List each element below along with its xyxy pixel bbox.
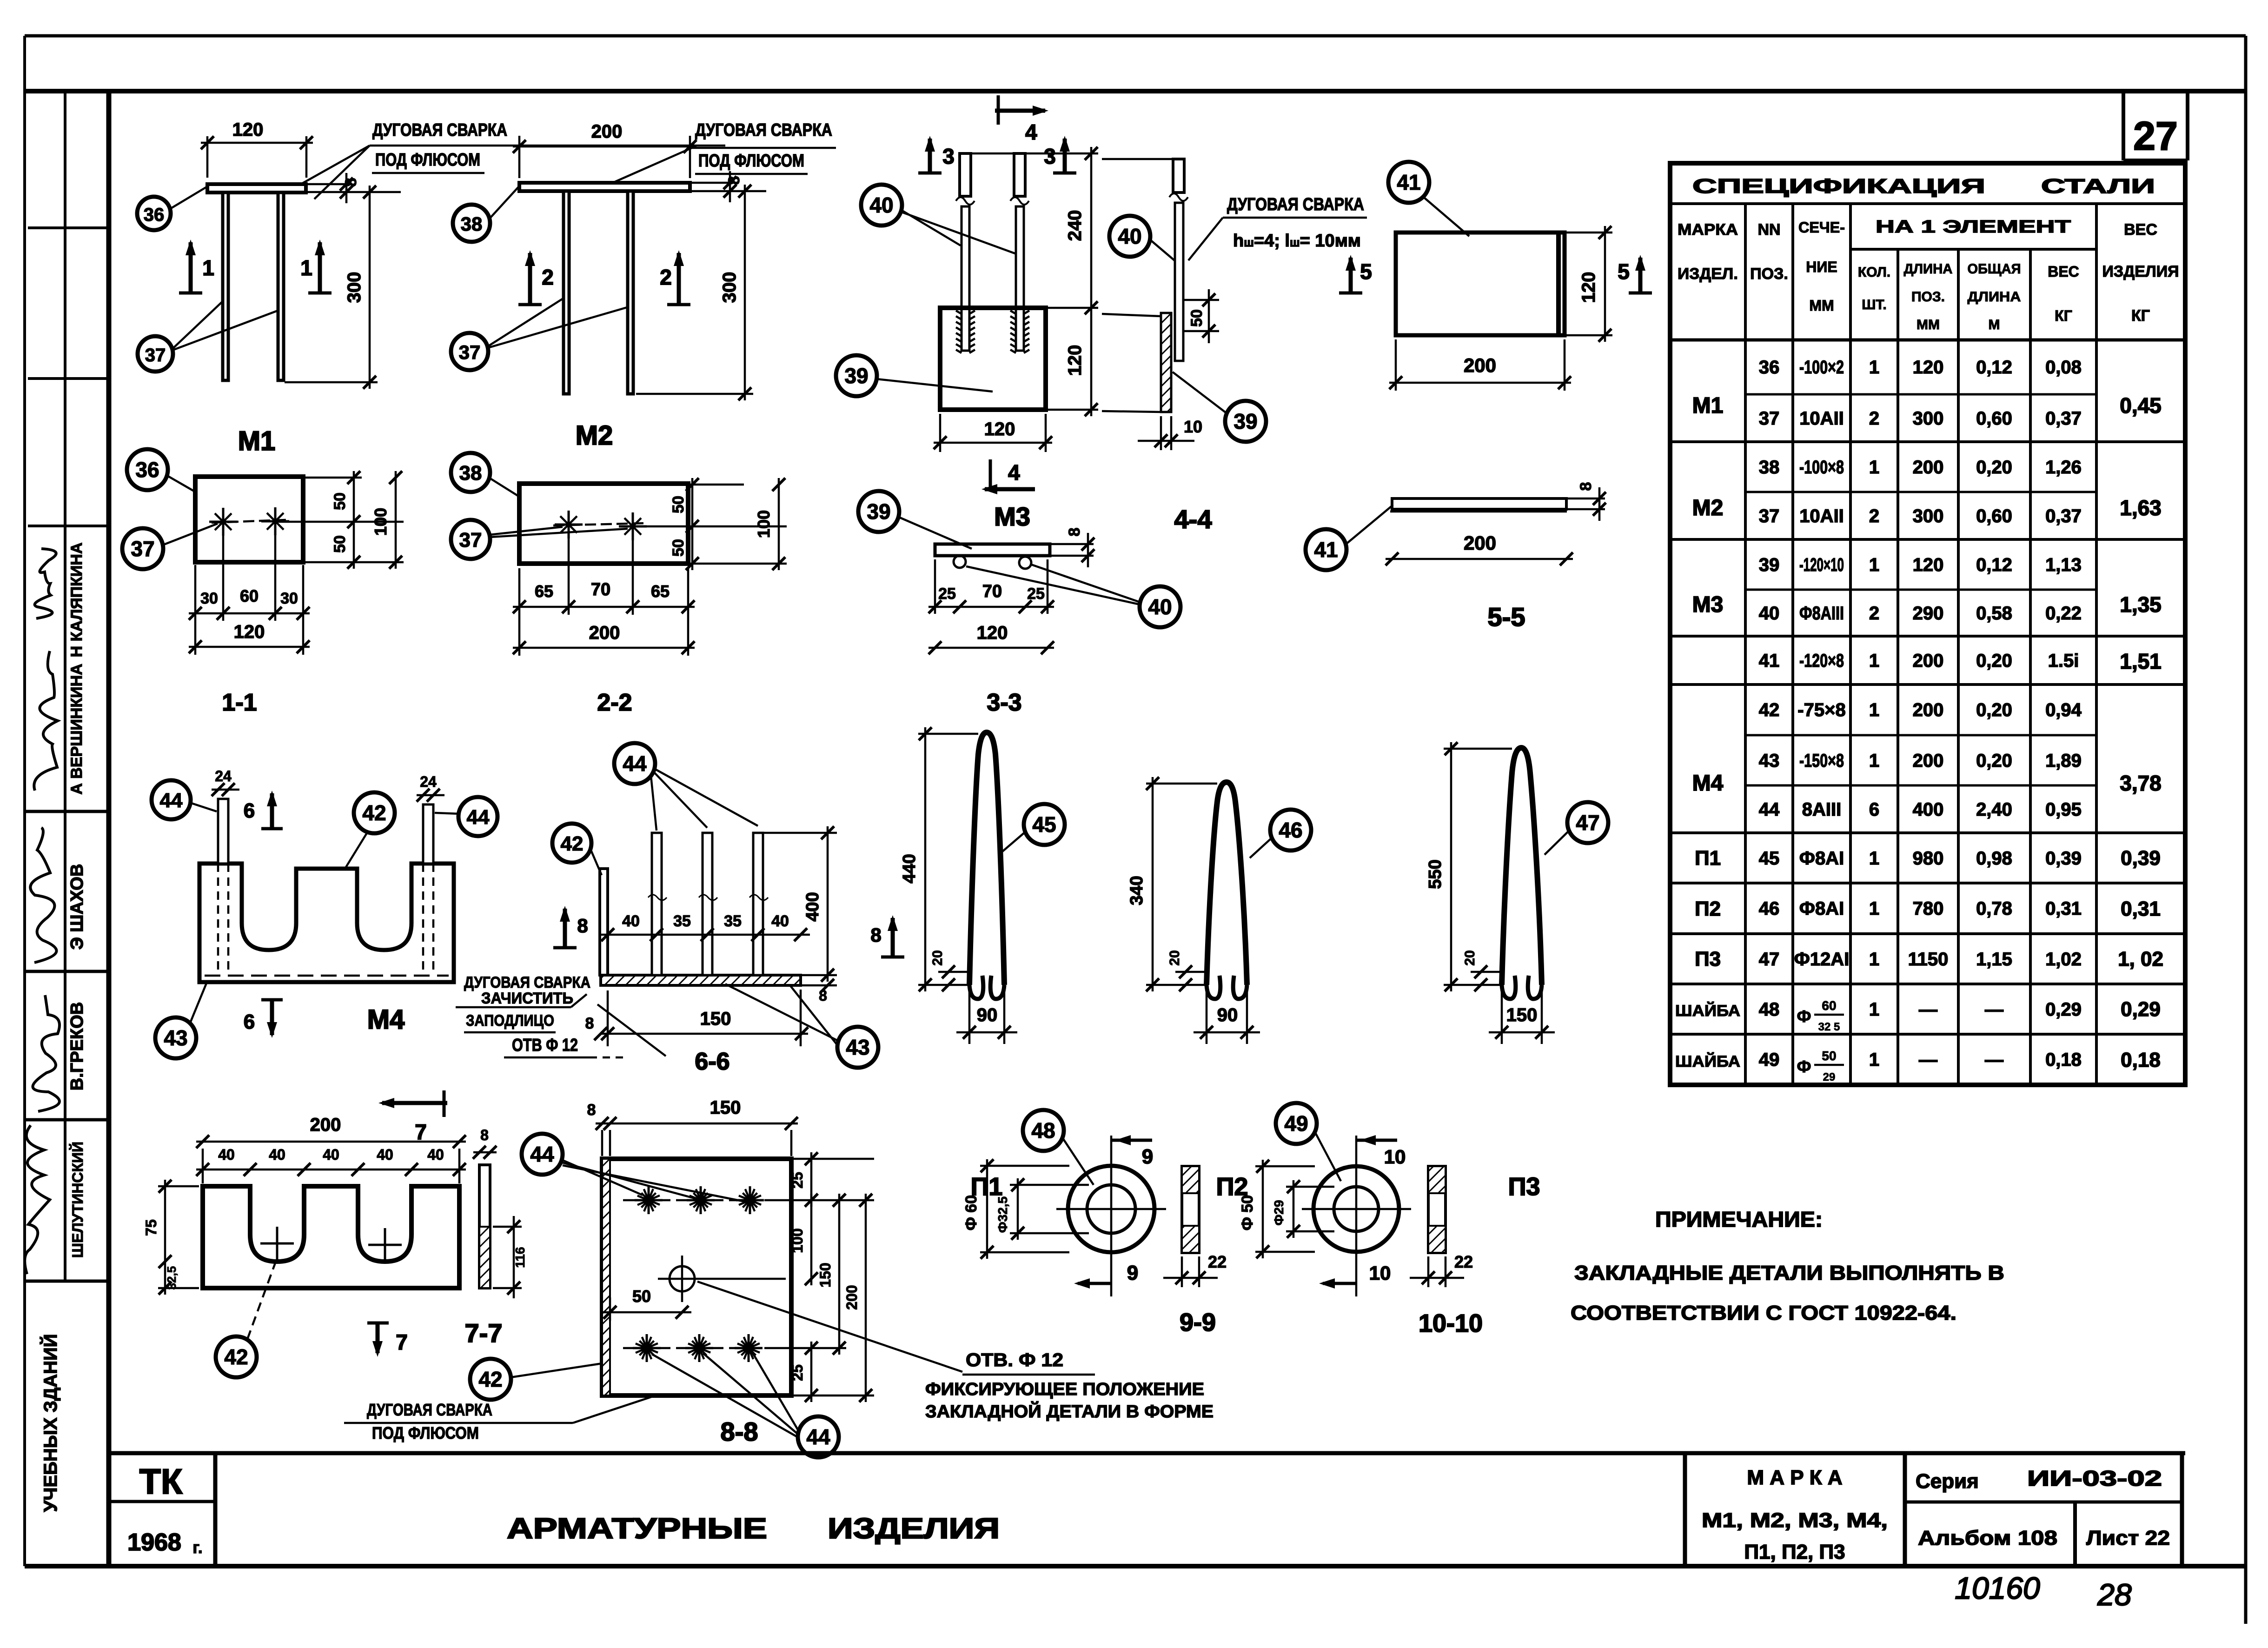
41: position balloon <box>1388 162 1429 203</box>
svg-text:1,63: 1,63 <box>2120 496 2162 520</box>
4-4: bolt shaft <box>1175 203 1183 361</box>
П3: dim 150 bottom <box>1501 990 1503 1044</box>
svg-text:СЕЧЕ-: СЕЧЕ- <box>1798 219 1845 236</box>
svg-text:43: 43 <box>164 1026 187 1050</box>
main drawing frame left thick line <box>106 91 112 1566</box>
svg-text:50: 50 <box>670 539 687 557</box>
svg-text:0,20: 0,20 <box>1976 700 2012 720</box>
svg-text:1: 1 <box>1869 457 1879 478</box>
M4: position balloon 44 left <box>152 780 191 819</box>
svg-text:1, 02: 1, 02 <box>2118 948 2163 970</box>
svg-text:40: 40 <box>427 1146 444 1163</box>
10-10: mark 10 bottom <box>1323 1282 1356 1285</box>
svg-text:УЧЕБНЫХ ЗДАНИЙ: УЧЕБНЫХ ЗДАНИЙ <box>40 1334 61 1512</box>
3-3: bolt stub right <box>1019 557 1031 569</box>
svg-text:200: 200 <box>1913 700 1944 720</box>
7-7: slot cross right <box>368 1244 402 1246</box>
svg-text:8: 8 <box>1577 482 1595 491</box>
svg-text:25: 25 <box>938 585 956 603</box>
svg-text:3: 3 <box>942 144 955 168</box>
svg-text:Ф 50: Ф 50 <box>1239 1195 1256 1230</box>
svg-text:АРМАТУРНЫЕ: АРМАТУРНЫЕ <box>507 1513 767 1545</box>
M3: bolt 40 right shaft <box>1016 206 1024 351</box>
svg-text:ПОЗ.: ПОЗ. <box>1750 265 1788 283</box>
svg-text:150: 150 <box>710 1097 741 1118</box>
M3: section mark 4 bottom <box>989 459 992 491</box>
sheet number box 27 <box>2122 91 2125 160</box>
П2: dim 90 bottom <box>1206 990 1208 1044</box>
svg-text:10-10: 10-10 <box>1419 1309 1483 1337</box>
svg-text:46: 46 <box>1279 818 1302 842</box>
svg-text:40: 40 <box>771 912 789 930</box>
signature 2 <box>34 651 58 791</box>
П1: position balloon 45 <box>1024 804 1065 845</box>
svg-text:40: 40 <box>323 1146 339 1163</box>
svg-text:0,12: 0,12 <box>1976 555 2012 575</box>
svg-text:40: 40 <box>622 912 640 930</box>
8-8: plate 42 <box>602 1159 791 1395</box>
M3: bolt 40 left shaft <box>962 206 969 351</box>
3-3: position balloon 40 <box>1140 586 1180 627</box>
svg-text:30: 30 <box>200 590 218 607</box>
svg-text:6-6: 6-6 <box>695 1048 729 1075</box>
M1: position balloon 36 <box>137 197 171 230</box>
svg-text:42: 42 <box>561 832 584 855</box>
svg-text:8: 8 <box>870 924 881 946</box>
M1: anchor leg 37 right <box>278 193 284 380</box>
svg-text:Ф29: Ф29 <box>1272 1200 1286 1225</box>
svg-text:120: 120 <box>1913 555 1944 575</box>
7-7: side dim 116 <box>493 1226 522 1228</box>
7-7: dim 200 top <box>202 1149 204 1183</box>
4-4: dim 50 <box>1184 299 1219 301</box>
svg-text:35: 35 <box>673 912 691 930</box>
svg-text:ОТВ Ф 12: ОТВ Ф 12 <box>512 1036 578 1055</box>
svg-text:ЗАКЛАДНЫЕ ДЕТАЛИ ВЫПОЛНЯТЬ В: ЗАКЛАДНЫЕ ДЕТАЛИ ВЫПОЛНЯТЬ В <box>1574 1262 2004 1284</box>
svg-text:40: 40 <box>269 1146 285 1163</box>
8-8: anchor star bottom 3 <box>735 1347 763 1349</box>
svg-text:М4: М4 <box>367 1004 405 1035</box>
svg-text:В.ГРЕКОВ: В.ГРЕКОВ <box>67 1002 87 1090</box>
2-2: bottom dims 65 70 65 <box>568 530 570 615</box>
svg-text:4: 4 <box>1025 120 1037 144</box>
signature row line 2 <box>25 970 109 973</box>
svg-text:50: 50 <box>1188 309 1206 327</box>
svg-text:ПОЗ.: ПОЗ. <box>1911 289 1945 305</box>
M3: section mark 4 top <box>997 95 1000 125</box>
svg-text:П1: П1 <box>1695 847 1721 870</box>
svg-text:П2: П2 <box>1695 897 1721 920</box>
svg-text:0,58: 0,58 <box>1976 603 2012 624</box>
svg-text:ВЕС: ВЕС <box>2048 263 2079 280</box>
svg-text:50: 50 <box>670 496 687 513</box>
svg-text:г.: г. <box>192 1538 202 1557</box>
svg-text:0,29: 0,29 <box>2121 998 2161 1021</box>
M4: position balloon 43 <box>155 1017 196 1058</box>
svg-text:90: 90 <box>1217 1005 1238 1025</box>
svg-text:—: — <box>1985 1050 2003 1070</box>
svg-text:ПОД ФЛЮСОМ: ПОД ФЛЮСОМ <box>375 150 480 170</box>
svg-text:1,35: 1,35 <box>2120 592 2162 617</box>
svg-text:42: 42 <box>478 1367 502 1391</box>
svg-text:200: 200 <box>1464 354 1496 376</box>
svg-text:ОТВ. Ф 12: ОТВ. Ф 12 <box>966 1350 1063 1370</box>
2-2: right dims 50 50 100 <box>688 484 744 486</box>
M2: anchor leg 37 right <box>628 191 633 394</box>
svg-text:25: 25 <box>789 1172 806 1189</box>
svg-text:ДУГОВАЯ СВАРКА: ДУГОВАЯ СВАРКА <box>464 974 590 991</box>
3-3: position balloon 39 <box>858 491 899 532</box>
6-6: dim 8 plate thickness <box>801 984 837 987</box>
svg-text:44: 44 <box>530 1142 554 1166</box>
svg-text:39: 39 <box>867 499 890 524</box>
svg-text:ММ: ММ <box>1809 297 1834 314</box>
10-10: dim Ф50 <box>1255 1165 1315 1168</box>
svg-text:0,18: 0,18 <box>2045 1050 2082 1070</box>
svg-text:120: 120 <box>232 120 264 140</box>
svg-text:М3: М3 <box>994 502 1030 531</box>
svg-text:43: 43 <box>1759 751 1780 771</box>
M2: section mark 2 right <box>677 253 681 305</box>
M4: dim 24 right anchor <box>417 794 444 797</box>
M3: bolt 40 right head <box>1014 153 1025 196</box>
4-4: bolt head <box>1173 159 1184 193</box>
svg-text:37: 37 <box>1759 506 1780 526</box>
svg-text:44: 44 <box>160 789 183 812</box>
svg-text:39: 39 <box>844 364 868 388</box>
10-10: washer 49 outer <box>1313 1166 1399 1252</box>
svg-text:200: 200 <box>589 623 620 643</box>
M1: dim 300 <box>285 381 378 384</box>
svg-text:28: 28 <box>2097 1577 2132 1612</box>
2-2: anchor cross right <box>619 525 647 528</box>
svg-text:М2: М2 <box>576 420 613 451</box>
svg-text:Ф8АI: Ф8АI <box>1799 898 1844 919</box>
svg-text:200: 200 <box>843 1285 860 1309</box>
main drawing frame bottom <box>25 1564 2246 1568</box>
M2: dim 200 top <box>518 136 521 178</box>
svg-text:1: 1 <box>1869 651 1879 671</box>
svg-text:—: — <box>1919 1050 1937 1070</box>
M4: position balloon 42 <box>354 792 395 833</box>
svg-text:1: 1 <box>1869 898 1879 919</box>
svg-text:50: 50 <box>1822 1049 1836 1063</box>
signature row line 4 <box>25 1280 109 1283</box>
svg-text:П3: П3 <box>1508 1173 1540 1201</box>
10-10: side view hatched <box>1428 1166 1446 1253</box>
8-8: dim 8 and 150 top <box>601 1130 603 1156</box>
svg-text:70: 70 <box>982 582 1002 601</box>
П1: dim 20 hook <box>938 971 969 973</box>
svg-text:70: 70 <box>591 580 610 599</box>
svg-text:47: 47 <box>1759 949 1780 970</box>
svg-text:10160: 10160 <box>1955 1571 2040 1605</box>
M2: position balloon 38 <box>453 205 490 242</box>
svg-text:200: 200 <box>1913 457 1944 478</box>
4-4: washer strip hatched <box>1161 313 1171 412</box>
3-3: bolt stub left <box>954 556 966 568</box>
svg-text:45: 45 <box>1032 812 1056 837</box>
svg-text:СТАЛИ: СТАЛИ <box>2041 175 2155 198</box>
svg-text:М: М <box>1989 317 2000 332</box>
7-7: side view thin plate <box>479 1165 490 1288</box>
svg-text:8: 8 <box>587 1101 596 1119</box>
svg-text:8: 8 <box>480 1127 489 1143</box>
svg-text:0,29: 0,29 <box>2045 999 2082 1020</box>
svg-text:КГ: КГ <box>2055 307 2072 324</box>
svg-text:2-2: 2-2 <box>597 689 632 716</box>
П3: bent bar 47 <box>1502 748 1542 985</box>
svg-text:1-1: 1-1 <box>222 689 257 716</box>
svg-text:-120×8: -120×8 <box>1799 651 1844 671</box>
svg-text:100: 100 <box>754 510 773 538</box>
серия cell <box>1903 1453 1907 1566</box>
svg-text:44: 44 <box>467 806 490 829</box>
svg-text:37: 37 <box>131 537 154 561</box>
svg-text:2: 2 <box>1869 408 1879 429</box>
svg-text:NN: NN <box>1757 221 1780 239</box>
6-6: left upright plate 42 <box>600 869 608 975</box>
M1: position balloon 37 <box>138 336 173 372</box>
3-3: dim 8 right <box>1050 543 1094 545</box>
svg-text:ИЗДЕЛИЯ: ИЗДЕЛИЯ <box>828 1513 1000 1545</box>
9-9: mark 9 bottom <box>1078 1282 1111 1285</box>
left margin tick 1 <box>28 226 109 229</box>
svg-text:2: 2 <box>1869 603 1879 624</box>
svg-text:32,5: 32,5 <box>165 1266 179 1290</box>
svg-text:65: 65 <box>535 582 553 601</box>
10-10: washer 49 inner hole <box>1334 1187 1379 1231</box>
svg-text:120: 120 <box>977 623 1008 643</box>
svg-text:ТК: ТК <box>139 1462 183 1502</box>
svg-text:36: 36 <box>1759 357 1780 378</box>
signature 4 <box>33 995 60 1111</box>
svg-text:37: 37 <box>145 345 166 365</box>
page frame: left thin border <box>23 36 26 1566</box>
svg-text:Серия: Серия <box>1916 1470 1979 1493</box>
svg-text:0,60: 0,60 <box>1976 506 2012 526</box>
M4: position balloon 44 right <box>458 797 497 836</box>
M3: dim 120 bottom <box>939 414 942 452</box>
M4: dim 24 left anchor <box>212 789 239 791</box>
svg-text:42: 42 <box>362 801 386 825</box>
svg-text:—: — <box>1919 999 1937 1020</box>
2-2: position balloon 37 <box>451 520 490 559</box>
svg-text:ИИ-03-02: ИИ-03-02 <box>2027 1466 2162 1490</box>
svg-text:41: 41 <box>1759 651 1780 671</box>
svg-text:0,98: 0,98 <box>1976 848 2012 869</box>
M3: bolt threads <box>956 311 962 314</box>
svg-text:10: 10 <box>1384 1146 1406 1168</box>
svg-text:0,08: 0,08 <box>2045 357 2082 378</box>
9-9: side view hatched <box>1182 1166 1199 1253</box>
svg-text:47: 47 <box>1576 811 1599 835</box>
svg-text:Н КАЛЯПКИНА: Н КАЛЯПКИНА <box>68 543 86 658</box>
7-7: left dims 75 / 32,5 <box>158 1185 199 1188</box>
svg-text:Э ШАХОВ: Э ШАХОВ <box>67 864 87 950</box>
П2: dim 20 hook <box>1175 971 1207 973</box>
svg-text:0,78: 0,78 <box>1976 898 2012 919</box>
M1: dim 8 plate thickness <box>306 183 352 186</box>
П3: position balloon 47 <box>1567 802 1608 843</box>
10-10: dim 22 <box>1427 1256 1430 1287</box>
4-4: dim 10 bottom <box>1160 416 1162 450</box>
plate 41 rectangle <box>1396 233 1565 335</box>
svg-text:0,37: 0,37 <box>2045 506 2082 526</box>
svg-text:41: 41 <box>1397 170 1420 194</box>
svg-text:40: 40 <box>377 1146 393 1163</box>
svg-text:0,95: 0,95 <box>2045 799 2082 820</box>
svg-text:ДУГОВАЯ СВАРКА: ДУГОВАЯ СВАРКА <box>367 1400 492 1419</box>
svg-text:44: 44 <box>623 751 647 776</box>
M4: channel plate 42/43 outline <box>199 864 454 982</box>
svg-text:1968: 1968 <box>127 1529 181 1556</box>
3-3: dims 25 70 25 <box>934 559 936 614</box>
svg-text:44: 44 <box>806 1425 830 1449</box>
svg-text:39: 39 <box>1759 555 1780 575</box>
svg-text:0,12: 0,12 <box>1976 357 2012 378</box>
svg-text:35: 35 <box>724 912 742 930</box>
svg-text:-100×2: -100×2 <box>1799 357 1844 378</box>
svg-text:25: 25 <box>789 1364 806 1381</box>
title block top line <box>107 1451 2185 1455</box>
svg-text:116: 116 <box>513 1247 527 1268</box>
1-1: anchor cross right <box>261 520 289 523</box>
svg-text:7: 7 <box>396 1330 408 1354</box>
svg-text:0,39: 0,39 <box>2121 847 2161 870</box>
svg-text:М2: М2 <box>1692 496 1724 520</box>
M3: section mark 3 right <box>1063 139 1067 173</box>
svg-text:1150: 1150 <box>1908 949 1949 970</box>
41: dim 200 bottom <box>1395 339 1397 391</box>
8-8: anchor star top 2 <box>687 1199 715 1202</box>
svg-text:50: 50 <box>632 1287 651 1306</box>
page frame: outer thin top border <box>25 34 2246 38</box>
svg-text:ЗАЧИСТИТЬ: ЗАЧИСТИТЬ <box>481 990 573 1007</box>
svg-text:9-9: 9-9 <box>1180 1309 1216 1336</box>
svg-text:2: 2 <box>1869 506 1879 526</box>
svg-text:4: 4 <box>1008 460 1020 485</box>
2-2: position balloon 38 <box>451 453 490 492</box>
svg-text:290: 290 <box>1913 603 1944 624</box>
svg-text:1,02: 1,02 <box>2045 949 2082 970</box>
svg-text:10: 10 <box>1369 1262 1391 1284</box>
svg-text:5: 5 <box>1618 259 1630 284</box>
left margin tick 3 <box>28 525 109 527</box>
svg-text:38: 38 <box>1759 457 1780 478</box>
svg-text:50: 50 <box>331 535 349 553</box>
svg-text:150: 150 <box>817 1263 834 1287</box>
svg-text:0,31: 0,31 <box>2045 898 2082 919</box>
П3: dim 20 hook <box>1471 971 1502 973</box>
svg-text:8: 8 <box>342 178 360 187</box>
svg-text:1: 1 <box>1869 848 1879 869</box>
svg-text:24: 24 <box>215 768 232 784</box>
9-9: washer 48 inner hole <box>1087 1185 1135 1233</box>
M2: position balloon 37 <box>451 333 488 370</box>
9-9: mark 9 top <box>1111 1139 1152 1142</box>
svg-text:1: 1 <box>1869 1050 1879 1070</box>
svg-text:200: 200 <box>1913 751 1944 771</box>
svg-text:М1: М1 <box>1692 393 1724 418</box>
svg-text:ШАЙБА: ШАЙБА <box>1675 1052 1740 1070</box>
svg-text:ШАЙБА: ШАЙБА <box>1675 1002 1740 1020</box>
svg-text:1,51: 1,51 <box>2120 649 2162 673</box>
svg-text:37: 37 <box>459 341 481 363</box>
П2: position balloon 46 <box>1270 810 1311 851</box>
svg-text:0,31: 0,31 <box>2121 897 2161 920</box>
svg-text:2,40: 2,40 <box>1976 799 2012 820</box>
svg-text:1.5i: 1.5i <box>2048 651 2079 671</box>
7-7: dims 40x5 <box>196 1169 466 1171</box>
svg-text:44: 44 <box>1759 799 1780 820</box>
svg-text:120: 120 <box>1578 272 1599 303</box>
8-8: anchor star top 1 <box>635 1199 663 1202</box>
TK box <box>213 1453 218 1566</box>
svg-text:4-4: 4-4 <box>1174 505 1212 534</box>
svg-text:340: 340 <box>1127 876 1147 905</box>
svg-text:1: 1 <box>1869 751 1879 771</box>
left margin tick 2 <box>28 377 109 380</box>
41: section mark 5 right <box>1638 258 1643 293</box>
svg-text:ПОД ФЛЮСОМ: ПОД ФЛЮСОМ <box>698 151 804 171</box>
svg-text:980: 980 <box>1913 848 1944 869</box>
svg-text:Ф8АI: Ф8АI <box>1799 848 1844 869</box>
signature 5 <box>25 1125 50 1274</box>
svg-text:П1, П2, П3: П1, П2, П3 <box>1744 1541 1845 1563</box>
svg-text:Альбом 108: Альбом 108 <box>1918 1527 2057 1549</box>
svg-text:0,39: 0,39 <box>2045 848 2082 869</box>
signature row line 3 <box>25 1118 109 1122</box>
41: dim 120 right <box>1565 232 1612 234</box>
M1: anchor leg 37 left <box>223 193 228 380</box>
3-3: plate bar <box>935 544 1050 556</box>
svg-text:60: 60 <box>240 586 259 605</box>
svg-text:100: 100 <box>789 1228 806 1253</box>
svg-text:1: 1 <box>1869 700 1879 720</box>
svg-text:10АII: 10АII <box>1799 408 1844 429</box>
signature row line 1 <box>25 810 109 813</box>
specification table <box>1670 163 2185 1085</box>
1-1: anchor cross left <box>209 521 237 523</box>
9-9: position balloon 48 <box>1023 1110 1064 1151</box>
svg-text:5-5: 5-5 <box>1488 602 1525 631</box>
main drawing frame top <box>25 89 2246 93</box>
svg-text:1: 1 <box>202 256 214 280</box>
svg-text:9: 9 <box>1142 1145 1153 1168</box>
svg-text:П3: П3 <box>1695 948 1721 970</box>
6-6: dims 40 35 35 40 <box>598 934 810 936</box>
П2: bent bar 46 <box>1207 782 1247 985</box>
4-4: position balloon 40 <box>1109 216 1150 257</box>
svg-text:0,60: 0,60 <box>1976 408 2012 429</box>
M1: weld note leader <box>298 146 370 186</box>
svg-text:—: — <box>1985 999 2003 1020</box>
M2: dim 300 <box>636 393 753 395</box>
svg-text:120: 120 <box>234 622 265 642</box>
svg-text:-120×10: -120×10 <box>1799 555 1844 575</box>
svg-text:150: 150 <box>700 1009 731 1029</box>
svg-text:1: 1 <box>1869 357 1879 378</box>
svg-text:10АII: 10АII <box>1799 506 1844 526</box>
svg-text:5: 5 <box>1360 259 1372 284</box>
svg-text:0,18: 0,18 <box>2121 1049 2161 1071</box>
svg-text:120: 120 <box>1913 357 1944 378</box>
2-2: anchor cross left <box>555 524 583 526</box>
svg-text:-100×8: -100×8 <box>1799 457 1844 478</box>
svg-text:ПОД ФЛЮСОМ: ПОД ФЛЮСОМ <box>372 1423 479 1442</box>
svg-text:8: 8 <box>577 915 588 937</box>
